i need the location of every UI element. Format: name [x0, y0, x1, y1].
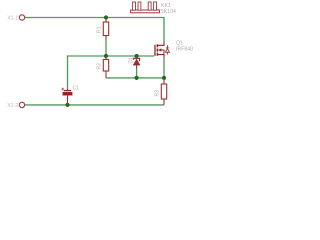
svg-text:C1: C1: [73, 86, 80, 92]
connector pin X1-2: [7, 102, 24, 109]
node junction source net at R3: [162, 76, 166, 80]
svg-text:R1: R1: [97, 26, 103, 33]
svg-text:IRF840: IRF840: [176, 47, 193, 53]
capacitor C1 (polarized): [61, 86, 79, 105]
svg-text:D1: D1: [128, 57, 134, 64]
resistor R2: [97, 56, 109, 78]
node junction R1 top: [104, 15, 108, 19]
zener diode D1: [128, 56, 139, 69]
wire X1-1 to Q1 drain (top rail): [25, 18, 164, 42]
node junction C1 bottom: [65, 103, 69, 107]
svg-text:Q1: Q1: [176, 41, 183, 47]
svg-text:R3: R3: [155, 90, 161, 97]
svg-text:KK1: KK1: [161, 3, 171, 9]
svg-text:X1-2: X1-2: [7, 103, 18, 109]
svg-text:SK104: SK104: [160, 9, 176, 15]
wire R1 bottom to gate net: [105, 40, 107, 56]
node junction gate net at D1: [135, 54, 139, 58]
node junction gate net at R1/R2: [104, 54, 108, 58]
wire gate net: Q1 gate to C1 top: [68, 56, 155, 89]
svg-text:X1-1: X1-1: [7, 16, 18, 22]
resistor R1: [97, 18, 109, 41]
heatsink KK1 SK104: [131, 2, 176, 15]
wire X1-2 to R3 bottom (bottom rail): [25, 104, 164, 106]
transistor Q1 (N-MOSFET IRF840): [155, 41, 193, 58]
node junction source net at D1: [135, 76, 139, 80]
resistor R3: [155, 78, 167, 105]
wire D1 anode down: [136, 69, 138, 78]
wire source net: R2 bottom to R3 top: [106, 77, 164, 79]
svg-text:R2: R2: [97, 63, 103, 70]
connector pin X1-1: [7, 15, 24, 22]
wire Q1 source down: [163, 58, 165, 78]
